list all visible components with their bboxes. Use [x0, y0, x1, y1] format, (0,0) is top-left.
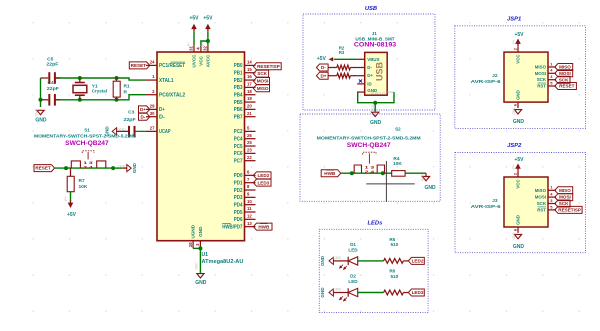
J3 pin 6 GND: [513, 215, 521, 233]
svg-text:GND: GND: [35, 118, 47, 124]
wire (S1): [55, 167, 114, 169]
svg-text:UVCC: UVCC: [192, 54, 197, 68]
svg-text:HWB/PD7: HWB/PD7: [222, 224, 242, 230]
svg-text:GND: GND: [195, 262, 199, 270]
capacitor C4: [41, 80, 61, 105]
svg-text:C4: C4: [48, 80, 54, 86]
svg-text:R6: R6: [389, 269, 395, 274]
svg-text:JSP2: JSP2: [507, 143, 522, 149]
svg-text:18: 18: [247, 89, 252, 94]
ground (S1): [113, 162, 137, 173]
resistor R3: [328, 50, 357, 78]
svg-text:GND: GND: [320, 255, 325, 266]
label D- (U1 pin 30): [139, 113, 150, 120]
svg-text:GND: GND: [516, 90, 521, 100]
svg-text:AVR-ISP-6: AVR-ISP-6: [471, 79, 501, 85]
resistor R6: [384, 269, 409, 295]
ground (crystal caps): [35, 110, 47, 123]
resistor R4: [392, 156, 405, 176]
J2 pin 3 SCK: [537, 74, 556, 82]
J3 pin 3 SCK: [537, 198, 556, 206]
J1 pin D+: [357, 73, 373, 78]
J1 shield pin: [387, 91, 394, 93]
ground (USB): [370, 103, 382, 126]
svg-text:USB: USB: [375, 62, 385, 82]
U1 pin 27 UCAP: [146, 126, 171, 136]
svg-text:PD5: PD5: [234, 210, 243, 216]
resistor R7: [67, 168, 88, 192]
svg-text:MISO: MISO: [535, 188, 547, 193]
svg-text:PD0: PD0: [234, 173, 243, 179]
label D+ (U1 pin 29): [139, 106, 150, 113]
label RESET (S1): [34, 165, 55, 172]
switch S2 SWCH-QB247: [317, 127, 421, 174]
svg-text:P+: P+: [512, 164, 516, 168]
svg-text:RESET: RESET: [35, 166, 51, 171]
svg-text:13: 13: [247, 221, 252, 226]
section box USB: [303, 6, 435, 110]
svg-text:16: 16: [247, 74, 252, 79]
wire XTAL1 rail: [55, 78, 146, 80]
no-connect X (ID pin): [359, 79, 362, 82]
junction (USB ground): [373, 101, 377, 105]
U1 pin 15 PB1: [234, 67, 256, 77]
svg-text:+5V: +5V: [317, 56, 327, 62]
svg-text:PD6: PD6: [234, 217, 243, 223]
svg-text:30: 30: [150, 111, 155, 116]
svg-text:VCC: VCC: [516, 54, 521, 64]
label LED3: [408, 289, 424, 296]
label RESETISP (JSP2): [555, 206, 582, 213]
svg-text:PB3: PB3: [234, 85, 243, 91]
svg-text:GND: GND: [421, 173, 425, 181]
power +5V (VBUS): [317, 56, 333, 62]
J2 pin 1 MISO: [535, 61, 556, 69]
section box JSP2: [455, 143, 586, 253]
svg-text:P+: P+: [512, 39, 516, 43]
svg-text:GND: GND: [195, 280, 207, 286]
svg-text:MISO: MISO: [535, 65, 547, 70]
U1 pin 23 PC6: [234, 148, 256, 158]
svg-text:20: 20: [247, 104, 252, 109]
svg-text:D-: D-: [367, 65, 372, 70]
U1 pin 7 PD1: [234, 177, 256, 187]
U1 pin 12 PD6: [234, 213, 256, 223]
svg-text:J1: J1: [372, 31, 378, 36]
ground (S2): [405, 173, 436, 191]
svg-text:PC7: PC7: [234, 159, 243, 165]
svg-text:UGND: UGND: [191, 224, 196, 238]
U1 pin 2 PC0/XTAL2: [146, 89, 185, 99]
svg-text:22pF: 22pF: [46, 61, 58, 67]
svg-text:PD3: PD3: [234, 195, 243, 201]
svg-text:26: 26: [247, 133, 252, 138]
connector J1 body USB_MINI-B_SMT: [354, 31, 397, 95]
svg-text:PB0: PB0: [234, 63, 243, 69]
svg-text:UCAP: UCAP: [159, 129, 171, 135]
U1 pin 31 UVCC: [189, 45, 197, 67]
svg-text:RESET: RESET: [131, 63, 147, 68]
svg-text:10K: 10K: [393, 161, 402, 167]
svg-text:15: 15: [247, 67, 252, 72]
svg-text:SWCH-QB247: SWCH-QB247: [65, 140, 109, 147]
svg-text:R5: R5: [389, 237, 395, 242]
svg-text:LEDs: LEDs: [367, 221, 383, 227]
svg-text:25: 25: [247, 140, 252, 145]
svg-text:12: 12: [247, 213, 252, 218]
svg-text:GND: GND: [118, 164, 127, 168]
capacitor C3: [117, 109, 136, 137]
svg-text:R1: R1: [124, 84, 130, 90]
svg-text:GND: GND: [370, 120, 382, 126]
svg-text:LED: LED: [348, 247, 358, 252]
svg-text:GND: GND: [516, 215, 521, 225]
svg-text:PC4: PC4: [234, 137, 243, 143]
ground (C3): [104, 126, 126, 137]
svg-text:R7: R7: [79, 178, 85, 184]
label MOSI (U1 PB2): [253, 77, 269, 84]
U1 pin 18 PB4: [234, 89, 256, 99]
svg-text:P+: P+: [64, 196, 68, 200]
label MOSI (JSP2): [555, 194, 573, 201]
svg-text:21: 21: [247, 111, 252, 116]
svg-text:USB: USB: [365, 6, 377, 12]
U1 pin 26 PC4: [234, 133, 256, 143]
svg-text:+5V: +5V: [67, 212, 77, 218]
svg-text:PC6: PC6: [234, 151, 243, 157]
J3 pin 1 MISO: [535, 185, 556, 193]
label MISO (JSP2): [555, 187, 573, 194]
svg-text:JSP1: JSP1: [507, 16, 521, 22]
J2 pin 4 MOSI: [535, 68, 556, 76]
svg-text:SCK: SCK: [537, 201, 547, 206]
connector J2 body AVR-ISP-6: [471, 52, 548, 102]
J3 pin 4 MOSI: [535, 192, 556, 200]
svg-text:CONN-08193: CONN-08193: [354, 42, 397, 49]
svg-text:D-: D-: [159, 115, 165, 121]
U1 pin 11 PD5: [234, 206, 256, 216]
svg-text:MISO: MISO: [559, 188, 571, 193]
wire USB ground loop: [357, 92, 394, 103]
label !HWB (U1 PD7): [253, 223, 272, 230]
svg-text:C3: C3: [128, 109, 134, 115]
label D+ (USB): [316, 72, 328, 79]
svg-text:GND: GND: [320, 287, 325, 298]
svg-text:RESETISP: RESETISP: [257, 64, 280, 69]
svg-text:GND: GND: [333, 288, 342, 292]
svg-text:D-: D-: [141, 114, 146, 119]
svg-text:510: 510: [390, 242, 398, 247]
svg-text:RESET: RESET: [559, 84, 575, 89]
power +5V (U1 UVCC): [189, 16, 199, 46]
U1 pin 25 PC5: [234, 140, 256, 150]
svg-text:ATmega8U2-AU: ATmega8U2-AU: [202, 259, 244, 265]
J2 pin 2 VCC: [513, 46, 521, 64]
power +5V (J3): [514, 157, 524, 171]
svg-text:D-: D-: [321, 65, 326, 70]
ground (J2): [513, 110, 525, 125]
svg-text:RESETISP: RESETISP: [558, 208, 581, 213]
U1 pin 10 PD4: [234, 199, 256, 209]
junction (R1 bottom): [115, 98, 119, 102]
svg-text:+5V: +5V: [514, 157, 524, 163]
svg-text:22pF: 22pF: [47, 86, 59, 92]
svg-text:GND: GND: [424, 185, 436, 191]
label MISO (U1 PB3): [253, 85, 269, 92]
svg-text:ID: ID: [367, 81, 371, 86]
J2 pin 5 RST: [537, 80, 556, 88]
capacitor C5: [41, 57, 61, 84]
svg-text:GND: GND: [198, 226, 203, 237]
power +5V (R7 pullup): [67, 192, 77, 218]
U1 pin 17 PB3: [234, 82, 256, 92]
svg-text:MISO: MISO: [559, 65, 571, 70]
label LED2 (U1 PD0): [253, 172, 271, 179]
U1 pin 22 PC7: [234, 155, 256, 165]
U1 pin 20 PB6: [234, 104, 256, 114]
svg-text:HWB: HWB: [324, 171, 336, 176]
svg-text:U1: U1: [202, 252, 209, 258]
J1 pin ID: [357, 81, 372, 86]
U1 pin 5 PC2: [234, 126, 256, 136]
resistor R5: [384, 237, 409, 263]
section box LEDs: [319, 221, 428, 313]
svg-text:28: 28: [188, 242, 193, 247]
svg-text:MISO: MISO: [257, 86, 269, 91]
svg-text:XTAL1: XTAL1: [159, 78, 174, 84]
section box S2: [300, 114, 440, 201]
svg-text:GND: GND: [512, 107, 516, 115]
svg-text:22: 22: [247, 155, 252, 160]
svg-text:AVR-ISP-6: AVR-ISP-6: [471, 204, 501, 210]
wire GND riser (crystal): [40, 78, 42, 107]
label MOSI (JSP1): [555, 70, 573, 77]
svg-text:MOMENTARY-SWITCH-SPST-2-SMD-5.: MOMENTARY-SWITCH-SPST-2-SMD-5.2MM: [34, 134, 136, 139]
IC U1 body: [157, 52, 245, 241]
svg-text:29: 29: [150, 104, 155, 109]
label D- (USB): [316, 64, 328, 71]
U1 pin 16 PB2: [234, 74, 256, 84]
svg-text:P+: P+: [187, 42, 191, 46]
U1 pin 4 VCC: [196, 45, 204, 66]
label !HWB (S2): [321, 170, 341, 177]
svg-text:PB7: PB7: [234, 115, 243, 121]
resistor R2: [328, 45, 357, 70]
svg-text:Y1: Y1: [92, 84, 98, 90]
svg-text:19: 19: [247, 96, 252, 101]
svg-text:24: 24: [150, 60, 155, 65]
svg-text:LED3: LED3: [257, 180, 269, 185]
power reference marks (gray): [35, 39, 517, 269]
svg-text:PD1: PD1: [234, 181, 243, 187]
svg-text:GND: GND: [333, 256, 342, 260]
J1 pin GND: [357, 88, 377, 93]
svg-text:10: 10: [247, 199, 252, 204]
svg-text:MOSI: MOSI: [535, 71, 546, 76]
svg-text:P+: P+: [201, 42, 205, 46]
U1 pin 24 PC1/RESET: [146, 60, 186, 70]
svg-text:PC0/XTAL2: PC0/XTAL2: [159, 93, 185, 99]
svg-text:+5V: +5V: [514, 32, 524, 38]
J1 pin D-: [357, 65, 372, 70]
svg-text:D2: D2: [350, 274, 356, 279]
LED D1: [339, 242, 358, 270]
U1 pin 29 D+: [146, 104, 165, 114]
svg-text:J3: J3: [492, 198, 498, 204]
U1 pin 13 HWB/PD7: [222, 221, 255, 231]
svg-text:GND: GND: [367, 88, 377, 93]
svg-text:GND: GND: [513, 244, 525, 250]
svg-text:PC1/RESET: PC1/RESET: [159, 63, 186, 69]
svg-text:22pF: 22pF: [124, 117, 136, 123]
svg-text:Crystal: Crystal: [92, 89, 107, 95]
J3 pin 5 RST: [537, 204, 556, 212]
svg-text:LED2: LED2: [412, 259, 424, 264]
svg-text:23: 23: [247, 148, 252, 153]
svg-text:2 4: 2 4: [365, 169, 376, 174]
wire (D2 anode): [358, 292, 384, 294]
wire XTAL2 rail: [55, 95, 146, 100]
connector J3 body AVR-ISP-6: [471, 177, 548, 227]
junction (S1 left): [64, 166, 68, 170]
junction (crystal top): [78, 76, 82, 80]
svg-text:PC2: PC2: [234, 129, 243, 135]
svg-text:PD2: PD2: [234, 188, 243, 194]
U1 pin 14 PB0: [234, 60, 256, 70]
svg-text:SCK: SCK: [559, 201, 569, 206]
svg-text:AVCC: AVCC: [206, 54, 211, 67]
label LED2: [408, 257, 424, 264]
svg-text:+5V: +5V: [203, 16, 213, 22]
svg-text:HWB: HWB: [258, 224, 270, 229]
svg-text:14: 14: [247, 60, 252, 65]
resistor R1: [113, 78, 130, 100]
svg-text:GND: GND: [513, 119, 525, 125]
wire UCAP: [136, 130, 147, 132]
svg-text:MOSI: MOSI: [535, 195, 546, 200]
U1 pin 3 GND: [195, 226, 203, 248]
svg-text:MOSI: MOSI: [257, 79, 269, 84]
junction (GND riser): [39, 98, 43, 102]
svg-text:SCK: SCK: [257, 71, 267, 76]
wire VBUS: [334, 58, 357, 60]
svg-text:PD4: PD4: [234, 203, 243, 209]
label SCK (U1 PB1): [253, 70, 268, 77]
U1 pin 6 PD0: [234, 170, 256, 180]
svg-text:GND: GND: [132, 162, 137, 173]
svg-text:D+: D+: [367, 73, 373, 78]
svg-text:11: 11: [247, 206, 252, 211]
svg-text:R: R: [124, 90, 128, 96]
wire (D1 anode): [358, 260, 384, 262]
crystal Y1: [73, 78, 107, 100]
svg-text:2 4: 2 4: [83, 165, 94, 170]
svg-text:SCK: SCK: [537, 77, 547, 82]
svg-text:17: 17: [247, 82, 252, 87]
J1 pin VBUS: [357, 57, 379, 62]
svg-text:GND: GND: [512, 232, 516, 240]
svg-text:R3: R3: [339, 50, 345, 55]
U1 pin 8 PD2: [234, 184, 256, 194]
U1 pin 1 XTAL1: [146, 74, 174, 84]
svg-text:PB4: PB4: [234, 93, 243, 99]
svg-text:S2: S2: [395, 127, 401, 132]
svg-text:SWCH-QB247: SWCH-QB247: [347, 142, 391, 149]
power +5V (U1 VCC/AVCC): [201, 16, 213, 46]
svg-text:RST: RST: [537, 207, 546, 212]
svg-text:VCC: VCC: [199, 55, 204, 65]
label SCK (JSP2): [555, 200, 570, 207]
svg-text:S1: S1: [84, 128, 90, 133]
svg-text:D+: D+: [159, 107, 165, 113]
U1 reference ATmega8U2-AU: [202, 252, 244, 265]
svg-text:RST: RST: [537, 84, 546, 89]
label RESET (U1 pin 24): [129, 62, 150, 69]
J2 pin 6 GND: [513, 90, 521, 108]
svg-text:MOMENTARY-SWITCH-SPST-2-SMD-5.: MOMENTARY-SWITCH-SPST-2-SMD-5.2MM: [317, 136, 421, 141]
svg-text:D1: D1: [350, 242, 356, 247]
ground (D2): [320, 287, 348, 298]
junction (S2 right): [381, 171, 385, 175]
svg-text:510: 510: [390, 274, 398, 279]
svg-text:GND: GND: [371, 104, 375, 112]
svg-text:VBUS: VBUS: [367, 57, 379, 62]
svg-text:LED2: LED2: [257, 173, 269, 178]
svg-text:MOSI: MOSI: [559, 195, 571, 200]
U1 pin 28 UGND: [188, 224, 196, 248]
svg-text:27: 27: [150, 126, 155, 131]
svg-text:D+: D+: [320, 73, 326, 78]
J3 pin 2 VCC: [513, 171, 521, 189]
label RESET (JSP1): [555, 83, 577, 90]
power +5V (J2): [514, 32, 524, 46]
label SCK (JSP1): [555, 76, 570, 83]
svg-text:PB6: PB6: [234, 107, 243, 113]
label MISO (JSP1): [555, 64, 573, 71]
svg-text:PC5: PC5: [234, 144, 243, 150]
svg-text:+5V: +5V: [189, 16, 199, 22]
svg-text:10K: 10K: [79, 184, 88, 190]
svg-text:PB1: PB1: [234, 71, 243, 77]
svg-text:J2: J2: [492, 73, 498, 79]
U1 pin 30 D-: [146, 111, 165, 121]
svg-text:GND: GND: [117, 128, 126, 132]
junction (crystal bottom): [78, 98, 82, 102]
junction (S1 right): [111, 166, 115, 170]
section box JSP1: [455, 16, 586, 128]
U1 pin 19 PB5: [234, 96, 256, 106]
cursor crosshair: [366, 161, 414, 202]
svg-text:MOSI: MOSI: [559, 71, 571, 76]
svg-text:PB2: PB2: [234, 78, 243, 84]
svg-text:D+: D+: [140, 107, 146, 112]
U1 pin 9 PD3: [234, 191, 256, 201]
wire (S2): [341, 172, 392, 174]
svg-text:PB5: PB5: [234, 100, 243, 106]
label LED3 (U1 PD1): [253, 179, 271, 186]
switch S1 SWCH-QB247: [34, 128, 136, 170]
junction (S2 left): [350, 171, 354, 175]
svg-text:VCC: VCC: [516, 179, 521, 189]
svg-text:GND: GND: [35, 108, 39, 116]
label RESETISP (U1 PB0): [253, 63, 281, 70]
LED D2: [339, 274, 358, 302]
svg-text:LED: LED: [348, 279, 358, 284]
ground (U1): [193, 246, 207, 286]
ground (D1): [320, 255, 348, 266]
junction (R1 top): [115, 76, 119, 80]
U1 pin 21 PB7: [234, 111, 256, 121]
